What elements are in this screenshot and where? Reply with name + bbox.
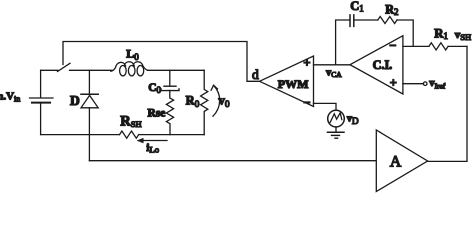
wire battery top to switch [41,69,58,71]
op-amp C.I. [350,36,403,94]
wire inductor to R0 top [147,69,204,71]
svg-text:RSH: RSH [120,114,141,130]
voltage source n.Vin (battery) [30,70,54,134]
svg-text:C0: C0 [148,82,161,95]
wire R1 to vSH node [448,45,467,47]
resistor R2 [378,17,397,24]
svg-text:R1: R1 [434,26,448,41]
inductor L0 [111,62,148,76]
arrow iLo [137,138,167,143]
feedback tap wire from vCA node up [336,20,350,65]
resistor Rse [166,90,173,134]
svg-text:d: d [252,67,259,82]
wire diode down through rail to sense rail [88,108,90,161]
resistor R1 [429,43,448,50]
wire non-inverting input to vIref terminal [403,83,424,85]
svg-text:−: − [389,38,396,52]
svg-text:+: + [303,56,310,70]
ground below vD [328,127,345,138]
switch blade [58,63,71,71]
svg-text:Rse: Rse [148,108,166,120]
svg-text:n.Vin: n.Vin [0,91,20,104]
bottom rail left of RSH [41,134,120,136]
diode D [81,70,98,108]
wire PWM - input to source vD [314,103,337,110]
wire PWM + input from vCA node [314,64,351,66]
svg-text:R0: R0 [186,94,200,110]
svg-text:vD: vD [347,113,359,127]
svg-text:vCA: vCA [326,67,342,79]
svg-text:D: D [70,93,80,108]
svg-text:C1: C1 [350,0,364,14]
svg-text:v0: v0 [218,93,230,110]
bottom rail right of RSH [139,134,205,136]
wire inverting input to R1 [403,45,429,47]
top control rail: switch gate to node d [63,42,260,82]
svg-text:PWM: PWM [278,77,309,91]
svg-text:vIref: vIref [429,78,446,90]
resistor RSH [120,131,139,138]
svg-text:+: + [390,76,397,90]
svg-text:C.I.: C.I. [373,58,393,72]
arrow v0 [211,85,220,116]
terminal vIref [423,82,427,86]
sense rail to amplifier A [89,160,376,162]
wire switch to inductor [70,69,113,71]
wire C1 to R2 [354,19,378,21]
resistor R0 [201,70,208,134]
svg-text:iLo: iLo [146,142,159,155]
source vD [328,110,345,127]
svg-text:L0: L0 [126,47,139,62]
svg-text:A: A [390,153,402,170]
comparator PWM [260,56,314,107]
capacitor C1 [350,15,354,27]
svg-text:vSH: vSH [455,29,472,42]
wire R2 down to inverting input [397,20,413,46]
svg-text:−: − [303,96,310,110]
amplifier A [376,130,427,192]
wire vSH node down right edge to A output [428,46,467,161]
capacitor C0 [161,70,179,90]
svg-text:R2: R2 [385,2,398,17]
